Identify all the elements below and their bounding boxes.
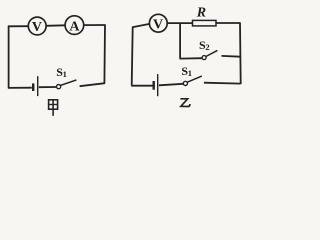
switch S1 pivot circle (right circuit) xyxy=(183,81,187,85)
label 乙 xyxy=(180,99,190,107)
switch S1 lever (right circuit) xyxy=(187,76,202,82)
svg-text:A: A xyxy=(69,19,80,34)
voltmeter V (left circuit) xyxy=(28,17,46,35)
svg-text:R: R xyxy=(196,5,206,20)
switch S2 lever xyxy=(206,50,218,56)
resistor R (box) xyxy=(193,20,217,26)
svg-text:V: V xyxy=(32,20,42,35)
wire: between voltmeter and ammeter xyxy=(46,24,65,27)
wire: ammeter to top-right corner xyxy=(84,24,106,26)
svg-text:1: 1 xyxy=(188,68,192,78)
switch S1 pivot circle (left circuit) xyxy=(57,85,61,89)
wire: battery to switch S1, circuit 乙 xyxy=(159,84,183,86)
voltmeter V (right circuit) xyxy=(149,14,167,32)
switch S2 pivot circle xyxy=(202,56,206,60)
label 甲 xyxy=(49,100,58,116)
battery short plate (left circuit) xyxy=(32,83,34,91)
wire: right vertical side, circuit 甲 xyxy=(103,25,106,84)
wire: left vertical side, circuit 甲 xyxy=(8,26,10,89)
wire: top-left corner to voltmeter, circuit 乙 xyxy=(132,24,149,27)
svg-text:1: 1 xyxy=(63,69,67,79)
battery short plate (right circuit) xyxy=(152,81,154,90)
svg-text:2: 2 xyxy=(205,42,209,52)
wire: bottom-right segment, circuit 甲 xyxy=(80,83,105,86)
wire: bottom-left segment to battery, circuit 乙 xyxy=(131,85,152,87)
switch S1 lever (left circuit) xyxy=(60,80,76,86)
battery long plate (left circuit) xyxy=(37,76,39,96)
ammeter A (left circuit) xyxy=(65,16,84,35)
wire: voltmeter to resistor R xyxy=(167,22,193,24)
wire: junction branch vertical (node to S2 branch) xyxy=(179,23,181,58)
wire: after S2 to right side xyxy=(222,55,241,58)
wire: after S1 to bottom-right corner, circuit 乙 xyxy=(204,82,241,85)
battery long plate (right circuit) xyxy=(157,74,159,96)
wire: right vertical side, circuit 乙 xyxy=(239,23,242,85)
wire: bottom-left segment to battery xyxy=(8,87,32,89)
wire: resistor to top-right corner xyxy=(216,22,240,24)
wire: battery to switch S1 xyxy=(39,86,57,88)
wire: S2 branch horizontal to pivot xyxy=(180,57,203,59)
wire: top-left segment to voltmeter, circuit 甲 xyxy=(8,25,28,27)
svg-text:V: V xyxy=(153,17,163,32)
wire: left vertical side, circuit 乙 xyxy=(132,27,133,86)
